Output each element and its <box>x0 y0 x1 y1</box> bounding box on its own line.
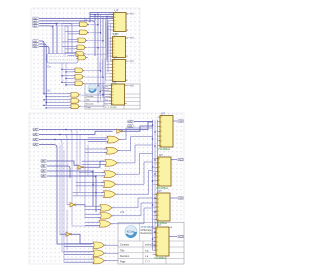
junction <box>65 78 66 79</box>
wire gate in A <box>62 22 78 24</box>
wire feeder g1 <box>67 26 69 53</box>
wire gate in A <box>68 38 76 40</box>
wire to U4 pin <box>104 100 109 102</box>
wire gate out <box>82 90 104 101</box>
AND gate G33 <box>69 104 80 109</box>
wire gate out <box>118 162 153 184</box>
junction <box>152 180 153 181</box>
wire mid bundle <box>109 23 111 60</box>
wire vertical feeder <box>79 135 81 192</box>
wire to U7 pin <box>153 219 155 221</box>
wire gate in A <box>64 258 92 260</box>
svg-text:v(r): v(r) <box>130 60 134 63</box>
wire to U4 pin <box>104 85 109 87</box>
wire to U2 pin <box>108 40 110 42</box>
wire xB1 bend <box>48 166 71 178</box>
kicad logo sheet2 <box>125 226 137 239</box>
wire to U8 pin <box>153 232 154 234</box>
wire to U3 pin <box>106 63 110 65</box>
wire gate in A <box>44 99 69 101</box>
wire gate out <box>88 23 106 48</box>
wire to U3 pin <box>106 60 110 62</box>
inverter N3 <box>70 203 76 207</box>
wire xB1 bend <box>39 44 46 105</box>
OR gate G45 <box>101 181 117 188</box>
wire feeder g1 <box>64 25 66 55</box>
wire gate out <box>90 14 98 25</box>
junction <box>106 16 107 17</box>
wire vertical feeder <box>66 210 68 250</box>
input label xA3 <box>33 25 40 28</box>
wire gate in A <box>85 221 98 223</box>
wire gate in B <box>66 77 73 79</box>
wire top 2 <box>90 16 113 18</box>
junction <box>43 99 44 100</box>
wire xA1 bend <box>39 21 95 56</box>
wire to U1 pin <box>108 22 111 24</box>
wire gate in A <box>79 172 103 174</box>
wire to label <box>127 60 130 62</box>
wire mid bundle <box>157 120 159 250</box>
wire mid bundle <box>152 120 154 250</box>
wire gate out <box>106 252 118 254</box>
wire xB0 <box>48 161 78 165</box>
wire gate in B <box>46 95 69 97</box>
svg-text:Creation: Creation <box>120 244 130 247</box>
wire mid bundle <box>100 15 102 100</box>
input label xA0 <box>33 17 40 20</box>
title block sheet2 <box>118 223 184 265</box>
junction <box>102 94 103 95</box>
wire xA2 continue <box>39 22 72 24</box>
junction <box>152 204 153 205</box>
OR gate G63 <box>91 258 106 264</box>
wire inverter4 out <box>72 234 92 244</box>
wire gate out <box>82 93 104 107</box>
wire to U2 pin <box>108 43 110 45</box>
wire to U6 pin <box>153 175 156 177</box>
wire to U2 pin <box>108 49 110 51</box>
junction <box>65 129 66 130</box>
wire inverter3 out <box>76 205 85 207</box>
wire to U6 pin <box>153 162 156 164</box>
wire gate out <box>121 128 152 140</box>
wire gate in B <box>66 71 73 73</box>
svg-text:xC2: xC2 <box>120 211 125 214</box>
wire to U4 <box>104 86 106 88</box>
output label bC3 <box>177 235 184 238</box>
wire to U4 pin <box>104 103 109 105</box>
junction <box>94 14 95 15</box>
wire to U1 pin <box>108 19 111 21</box>
wire to U4 pin <box>104 94 109 96</box>
ic U1 <box>111 8 128 35</box>
wire xA3 bend down <box>40 145 58 243</box>
OR gate G51 <box>98 205 114 212</box>
wire to U3 pin <box>106 70 110 72</box>
AND gate G23 <box>73 81 84 86</box>
wire gate in B <box>68 33 78 35</box>
AND gate G31 <box>69 93 80 98</box>
wire inverter2 out <box>84 161 104 167</box>
dashed bus line <box>49 59 76 61</box>
wire to output <box>169 236 177 238</box>
OR gate G44 <box>102 171 118 178</box>
ic U4 <box>109 80 126 109</box>
OR gate G46 <box>101 191 117 198</box>
output label bC0 <box>177 120 184 123</box>
wire gate in A <box>85 205 99 207</box>
wire to U8 pin <box>153 249 154 251</box>
wire to U1 pin <box>108 16 111 18</box>
wire top 1 <box>90 14 113 16</box>
output label bC2 <box>177 197 184 200</box>
input label xB1 <box>41 165 48 168</box>
wire to U2 pin <box>108 37 110 39</box>
ic U6 <box>156 153 171 190</box>
junction <box>61 69 62 70</box>
net label fb2 <box>128 125 135 128</box>
junction <box>46 107 47 108</box>
junction <box>46 96 47 97</box>
wire to U8 pin <box>153 236 154 238</box>
svg-text:KiCa: KiCa <box>89 88 95 90</box>
wire gate in A <box>44 104 69 106</box>
junction <box>152 166 153 167</box>
wire to U5 pin <box>157 121 159 123</box>
junction <box>154 145 155 146</box>
wire gate in B <box>76 185 103 187</box>
junction <box>59 134 60 135</box>
input label xB0 <box>33 40 40 43</box>
wire gate out <box>87 26 108 54</box>
wire label to U5 <box>134 121 152 123</box>
wire gate in A <box>85 213 99 215</box>
wire gate in A <box>64 243 92 245</box>
net label fb1 <box>128 120 135 123</box>
input label xA3 <box>33 143 40 146</box>
schematic sheet 1 background <box>31 8 140 109</box>
AND gate G16 <box>76 55 87 60</box>
wire to U5 pin <box>157 130 159 132</box>
wire to U7 pin <box>153 206 155 208</box>
wire mid bundle <box>154 120 156 250</box>
wire gate in B <box>46 107 69 109</box>
bus loop box <box>47 54 78 64</box>
title block text sheet2 <box>120 226 173 264</box>
wire gate out <box>86 62 100 71</box>
input label xB1 <box>33 43 40 46</box>
junction <box>43 93 44 94</box>
junction <box>56 23 57 24</box>
svg-text:xB0: xB0 <box>41 160 46 163</box>
input label xB2 <box>41 170 48 173</box>
wire gate in A <box>62 75 73 77</box>
wire xA2 bend <box>39 23 57 53</box>
inverter N2 <box>78 165 84 169</box>
svg-text:KiCad: KiCad <box>127 230 135 234</box>
OR gate G53 <box>97 221 113 228</box>
AND gate G21 <box>73 68 84 73</box>
svg-text:7 / 7: 7 / 7 <box>145 261 150 264</box>
svg-text:U?: U? <box>157 223 161 227</box>
junction <box>52 25 53 26</box>
svg-text:Revision: Revision <box>86 103 94 105</box>
wire gate in A <box>62 81 73 83</box>
wire to U4 pin <box>104 88 109 90</box>
svg-text:U?: U? <box>114 32 118 36</box>
svg-text:Revision: Revision <box>120 255 130 258</box>
AND gate G12 <box>78 30 89 35</box>
OR gate G41 <box>105 136 121 143</box>
svg-text:xB1: xB1 <box>41 165 46 168</box>
svg-text:74LS86ac: 74LS86ac <box>158 147 171 151</box>
wire to U7 pin <box>153 194 155 196</box>
junction <box>92 184 93 185</box>
wire to U3 pin <box>106 79 110 81</box>
svg-text:xA3: xA3 <box>33 143 38 146</box>
input label xB3 <box>41 175 48 178</box>
wire to output <box>173 120 177 122</box>
wire gate out <box>118 171 153 195</box>
OR gate G62 <box>91 250 106 256</box>
wire gate in B <box>82 164 104 166</box>
ic U7 <box>155 189 170 225</box>
svg-text:xA0: xA0 <box>33 128 38 131</box>
wire gate in A <box>64 251 92 253</box>
input label xA0 <box>33 128 40 131</box>
svg-text:xA0: xA0 <box>128 120 133 123</box>
wire xB2 bend <box>39 47 49 54</box>
svg-text:CP5LCa(s): CP5LCa(s) <box>141 230 153 232</box>
wire to U5 pin <box>157 126 159 128</box>
wire gate out <box>106 244 118 246</box>
wire vertical feeder <box>76 131 78 196</box>
inverter N1 <box>117 129 123 133</box>
wire xA1 branch down <box>60 135 67 203</box>
wire to U1 pin <box>108 13 111 15</box>
input label xB2 <box>33 45 40 48</box>
junction <box>61 82 62 83</box>
junction <box>100 32 101 33</box>
wire gate out <box>114 203 153 216</box>
wire to U5 pin <box>157 145 159 147</box>
OR gate G43 <box>103 160 119 167</box>
junction <box>152 124 153 125</box>
junction <box>43 105 44 106</box>
dashed bus line <box>49 56 76 58</box>
wire gate in B <box>65 25 78 27</box>
wire to U3 pin <box>106 76 110 78</box>
wire vertical feeder <box>61 63 63 82</box>
svg-text:U?: U? <box>158 189 162 193</box>
svg-text:xA2: xA2 <box>33 138 38 141</box>
wire to U1 pin <box>108 26 111 28</box>
wire gate out <box>113 208 153 224</box>
ic U3 <box>110 55 127 85</box>
wire to U6 pin <box>153 166 156 168</box>
AND gate G22 <box>73 75 84 80</box>
junction <box>100 70 101 71</box>
svg-text:bC0: bC0 <box>178 120 183 123</box>
junction <box>95 175 96 176</box>
wire gate in A <box>76 182 103 184</box>
wire to label <box>127 85 130 87</box>
wire gate in B <box>46 101 69 103</box>
wire gate in A <box>62 68 73 70</box>
wire xB0 bend <box>39 41 44 94</box>
ic U2 <box>110 32 127 61</box>
wire xA2 branch <box>60 23 72 53</box>
wire to U6 pin <box>153 158 156 160</box>
junction <box>54 139 55 140</box>
AND gate G14 <box>75 45 86 50</box>
wire to U6 pin <box>153 179 156 181</box>
wire gate in A <box>85 148 105 150</box>
svg-text:v(r): v(r) <box>130 85 134 88</box>
wire xA2 to gate <box>40 139 107 141</box>
AND gate G15 <box>74 52 85 57</box>
wire gate out <box>120 137 152 151</box>
wire to U6 pin <box>153 184 156 186</box>
wire xA0 to U5 <box>40 122 153 130</box>
wire to U8 pin <box>153 254 154 256</box>
svg-text:U?: U? <box>159 153 163 157</box>
svg-text:Revision(s): Revision(s) <box>101 90 110 92</box>
wire xA0 to U1 <box>39 17 113 19</box>
junction <box>102 40 103 41</box>
wire to U2 pin <box>108 52 110 54</box>
wire gate out <box>82 87 104 95</box>
junction <box>154 131 155 132</box>
wire inverter out <box>123 126 153 131</box>
wire top 0 <box>90 12 113 14</box>
wire vertical feeder <box>84 140 86 218</box>
wire gate in A <box>44 93 69 95</box>
wire gate out <box>119 145 152 163</box>
inverter N4 <box>66 232 72 236</box>
wire vertical feeder <box>63 150 65 261</box>
junction <box>154 231 155 232</box>
svg-text:U?: U? <box>115 8 119 12</box>
wire xA3 to gate <box>57 242 91 244</box>
svg-text:U?: U? <box>114 55 118 59</box>
junction <box>97 24 98 25</box>
wire to U7 pin <box>153 198 155 200</box>
junction <box>152 138 153 139</box>
svg-text:bC1: bC1 <box>178 158 183 161</box>
wire to U2 pin <box>108 55 110 57</box>
wire to U5 pin <box>157 116 159 118</box>
wire to output <box>170 197 177 199</box>
junction <box>102 77 103 78</box>
wire xA1 to inverter <box>40 131 113 134</box>
wire gate in A <box>62 45 75 47</box>
wire gate out <box>86 58 105 84</box>
wire to U7 pin <box>153 210 155 212</box>
ic U5 <box>158 111 173 151</box>
wire xA0 branch down <box>66 130 72 225</box>
wire gate in A <box>82 160 104 162</box>
wire mid bundle <box>107 21 109 72</box>
wire feeder g1 <box>61 23 63 53</box>
svg-text:74LS86: 74LS86 <box>110 107 118 109</box>
AND gate G13 <box>76 38 87 43</box>
wire gate in B <box>88 140 106 142</box>
wire to U5 pin <box>157 140 159 142</box>
svg-text:v(r): v(r) <box>130 37 134 40</box>
wire mid bundle <box>97 13 99 103</box>
svg-text:bC3: bC3 <box>178 235 183 238</box>
wire to U8 pin <box>153 228 154 230</box>
junction <box>46 102 47 103</box>
wire to U8 pin <box>153 245 154 247</box>
svg-text:xA1: xA1 <box>128 125 133 128</box>
wire gate out <box>118 154 152 175</box>
junction <box>65 71 66 72</box>
input label xA1 <box>33 133 40 136</box>
junction <box>154 159 155 160</box>
wire to U8 pin <box>153 241 154 243</box>
wire gate in A <box>65 52 74 54</box>
wire to U7 pin <box>153 214 155 216</box>
svg-text:bC2: bC2 <box>178 197 183 200</box>
wire to label <box>127 37 130 39</box>
svg-text:U?: U? <box>113 80 117 84</box>
junction <box>152 238 153 239</box>
input label xB0 <box>41 160 48 163</box>
wire to U2 pin <box>108 46 110 48</box>
junction <box>100 91 101 92</box>
wire xA3 bend <box>39 26 53 54</box>
input label xA2 <box>33 22 40 25</box>
wire gate in B <box>64 261 92 263</box>
wire riser <box>89 13 91 23</box>
wire long feeder <box>59 145 61 234</box>
wire gate in B <box>65 48 75 50</box>
wire branch <box>62 250 91 252</box>
wire gate in B <box>85 151 105 153</box>
wire gate in B <box>85 216 99 218</box>
wire to U7 pin <box>153 202 155 204</box>
wire gate in B <box>64 246 92 248</box>
wire gate in B <box>64 254 92 256</box>
input label xA1 <box>33 20 40 23</box>
OR gate G42 <box>104 147 120 154</box>
junction <box>92 170 93 171</box>
AND gate G11 <box>78 22 89 27</box>
wire to output <box>171 159 177 161</box>
wire to U3 pin <box>106 73 110 75</box>
junction <box>95 192 96 193</box>
wire gate in B <box>73 195 103 197</box>
kicad logo sheet1 <box>88 84 97 93</box>
OR gate G52 <box>98 213 114 220</box>
title block text sheet1 <box>86 86 114 109</box>
wire inverter4 in <box>60 233 66 235</box>
ic U8 <box>154 223 169 260</box>
wire mid bundle <box>102 17 104 97</box>
wire riser <box>94 15 96 21</box>
wire mid bundle <box>105 19 107 80</box>
svg-text:Revision(s): Revision(s) <box>141 233 153 235</box>
wire to U4 pin <box>104 91 109 93</box>
input label xA2 <box>33 138 40 141</box>
title block sheet1 <box>85 84 140 109</box>
wire gate in B <box>62 41 76 43</box>
wire vertical feeder <box>87 145 89 175</box>
junction <box>154 173 155 174</box>
